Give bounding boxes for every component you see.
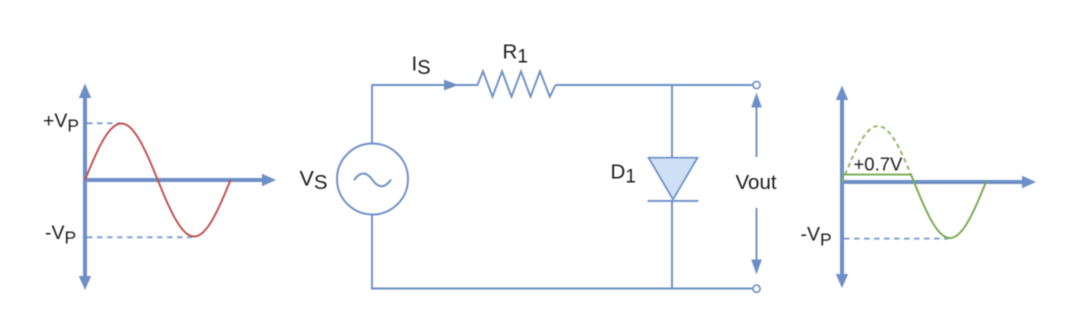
top-right terminal [753,81,760,88]
green clipped flat line at +0.7V [842,174,911,176]
AC source V_S [337,144,408,215]
source sine symbol [354,174,391,187]
svg-text:Vout: Vout [736,171,777,194]
wire: junction down to diode [671,85,673,158]
wire: diode to bottom wire [671,201,673,289]
svg-text:VS: VS [300,166,328,193]
svg-text:+0.7V: +0.7V [854,154,904,175]
green dashed unclipped half-sine [842,126,914,182]
diode cathode bar [648,200,699,202]
current Is arrowhead [444,80,459,91]
bottom-right terminal [753,285,760,292]
svg-text:IS: IS [412,53,431,80]
-Vp dashed level line (right) [844,238,948,240]
green output negative half-sine [911,175,986,238]
left graph vertical axis [79,84,91,291]
left graph horizontal axis [85,174,276,186]
Vout upper arrow (pointing up) [751,93,762,158]
wire: source top to resistor [372,85,478,144]
wire: source bottom + bottom rail [372,215,753,289]
red input sine wave [85,124,231,237]
+Vp dashed level line [87,122,120,124]
Vout lower arrow (pointing down) [751,208,762,275]
resistor R1 zigzag [478,71,556,96]
diode D1 triangle [649,158,698,200]
right graph vertical axis [836,86,848,289]
right graph horizontal axis [842,176,1036,188]
wire: resistor to top-right terminal [556,84,754,86]
-Vp dashed level line [87,236,192,238]
